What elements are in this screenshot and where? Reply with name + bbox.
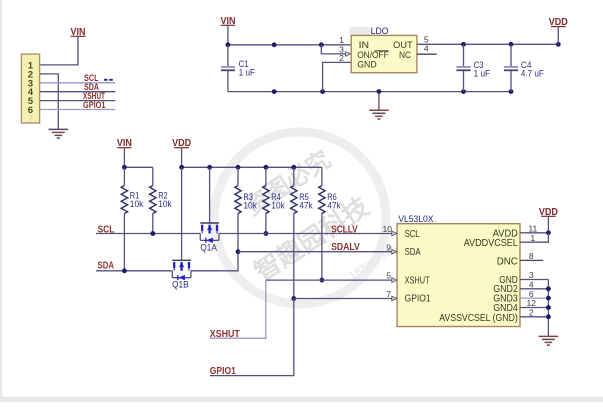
junction at AVDD <box>546 230 551 235</box>
svg-text:4: 4 <box>424 44 429 54</box>
junction AVSSVCSEL <box>546 314 551 319</box>
wire ON/OFF drop to LDO pin 3 <box>321 45 345 54</box>
ground (IC) <box>539 336 559 345</box>
supply VIN (pull-up section) <box>117 138 132 167</box>
wire R1 to SDA row <box>123 214 125 271</box>
svg-text:SDALV: SDALV <box>331 242 360 253</box>
wire AVDDVCSEL pin 1 <box>520 233 548 242</box>
wire AVDD pin 11 <box>520 232 548 234</box>
wire VIN down to input rail <box>227 26 229 45</box>
svg-text:XSHUT: XSHUT <box>405 275 430 286</box>
junction VIN rail at R1 <box>122 165 127 170</box>
svg-text:1 uF: 1 uF <box>474 69 491 80</box>
svg-text:10k: 10k <box>158 199 172 209</box>
wire GND4 pin 12 <box>520 307 548 309</box>
wire SCLLV row <box>219 233 392 235</box>
bottom grey bar <box>0 398 603 402</box>
supply VDD (LDO section) <box>549 17 568 44</box>
svg-text:7: 7 <box>386 289 391 299</box>
capacitor C4 <box>504 44 544 91</box>
capacitor C1 <box>221 45 255 92</box>
svg-text:ON/OFF: ON/OFF <box>357 50 389 60</box>
transistor Q1A <box>200 167 219 253</box>
junction VDD rail at R5 <box>291 165 296 170</box>
junction SDA row at R1 <box>122 268 127 273</box>
ground (connector) <box>49 129 69 138</box>
junction R5 at GPIO1 row <box>291 296 296 301</box>
svg-text:DNC: DNC <box>497 256 518 267</box>
svg-text:2: 2 <box>529 308 534 318</box>
resistor R6 <box>319 167 342 213</box>
net label SCL (connector) <box>84 73 113 83</box>
wire R4 to SCLLV row <box>265 214 267 234</box>
supply VIN (LDO section) <box>221 16 236 27</box>
resistor R4 <box>263 167 286 213</box>
IC U1 VL53L0X <box>397 214 520 327</box>
svg-text:GPIO1: GPIO1 <box>83 100 106 110</box>
svg-text:GND: GND <box>357 60 377 70</box>
wire connector pin 4 (SDA) <box>40 91 115 93</box>
stub DNC pin 8 <box>520 259 543 261</box>
svg-text:47k: 47k <box>327 201 341 211</box>
svg-text:SCLLV: SCLLV <box>331 224 358 235</box>
junction ground rail at C3 <box>461 89 466 94</box>
junction on input rail at C1 <box>226 42 231 47</box>
svg-text:Q1A: Q1A <box>200 242 217 253</box>
svg-text:10: 10 <box>382 224 392 234</box>
wire GND bus vertical <box>547 280 549 336</box>
wire connector pin 5 (XSHUT) <box>40 100 115 102</box>
junction VDD rail at R4 <box>264 165 269 170</box>
wire LDO GND to ground rail <box>323 62 352 91</box>
wire XSHUT label riser <box>210 280 266 338</box>
wire GND3 pin 6 <box>520 297 548 299</box>
wire AVSSVCSEL pin 2 <box>520 316 548 318</box>
pin 10 arrow (SCL) <box>392 231 397 236</box>
resistor R5 <box>291 167 314 213</box>
svg-text:10k: 10k <box>243 201 257 211</box>
svg-text:5: 5 <box>386 271 391 281</box>
junction ground rail at C4 <box>509 89 514 94</box>
svg-text:SCL: SCL <box>405 229 420 240</box>
left grey edge <box>0 0 2 402</box>
pin 9 arrow (SDA) <box>392 249 397 254</box>
junction VDD rail at Q1B gate <box>179 165 184 170</box>
junction on input rail at ON/OFF drop <box>319 42 324 47</box>
junction VDD rail at R3 <box>236 165 241 170</box>
resistor R1 <box>121 167 144 213</box>
wire GND pin 3 <box>520 279 548 281</box>
svg-text:8: 8 <box>529 251 534 261</box>
wire R3 to SDALV row and Q1B drain <box>191 214 238 271</box>
junction VDD rail at Q1A gate <box>207 165 212 170</box>
wire R5 down to GPIO1 row <box>293 214 295 299</box>
wire VIN rail <box>124 166 152 168</box>
wire SDA row <box>96 270 172 272</box>
svg-text:4.7 uF: 4.7 uF <box>521 69 544 80</box>
svg-text:1 uF: 1 uF <box>239 68 256 79</box>
svg-text:XSHUT: XSHUT <box>210 329 241 340</box>
svg-text:1: 1 <box>530 233 535 243</box>
junction GND3 <box>546 296 551 301</box>
svg-text:SDA: SDA <box>98 261 115 272</box>
wire R2 to SCL row <box>152 214 154 234</box>
wire LDO OUT to VDD <box>417 43 558 45</box>
wire R6 to XSHUT row <box>321 214 323 281</box>
supply VIN (connector) <box>71 27 86 38</box>
junction R3 at SDALV row <box>236 249 241 254</box>
svg-text:10k: 10k <box>130 199 144 209</box>
junction ground rail <box>272 89 277 94</box>
svg-text:7: 7 <box>28 114 33 124</box>
wire SCL row <box>96 233 200 235</box>
junction ground rail at LDO GND <box>320 89 325 94</box>
wire XSHUT row <box>266 279 393 281</box>
junction ground rail at ground symbol <box>377 89 382 94</box>
ground rail (LDO section) <box>228 91 511 93</box>
svg-text:VL53L0X: VL53L0X <box>398 214 433 224</box>
svg-text:AVDDVCSEL: AVDDVCSEL <box>464 238 519 249</box>
pin NC stub <box>417 53 437 55</box>
junction SCL row at R2 <box>150 231 155 236</box>
svg-text:IN: IN <box>359 40 370 50</box>
junction R4 at SCLLV row <box>264 231 269 236</box>
svg-text:Q1B: Q1B <box>172 280 189 291</box>
wire VDD rail <box>182 166 322 168</box>
svg-text:GPIO1: GPIO1 <box>405 293 431 304</box>
wire GND2 pin 4 <box>520 288 548 290</box>
watermark <box>214 132 441 304</box>
junction OUT rail at VDD <box>556 42 561 47</box>
connector J1 <box>21 54 39 123</box>
junction on input rail <box>272 42 277 47</box>
pin 7 arrow (GPIO1) <box>392 296 397 301</box>
resistor R2 <box>150 167 173 213</box>
supply VDD (pull-up section) <box>172 138 191 167</box>
junction R6 at XSHUT row <box>320 278 325 283</box>
LDO U2 <box>339 26 429 73</box>
svg-text:10k: 10k <box>271 201 285 211</box>
wire VIN to connector pin 1 <box>40 37 78 65</box>
wire SDALV row <box>238 251 392 253</box>
wire connector pin 6 (GPIO1) <box>40 109 115 111</box>
transistor Q1B <box>172 167 191 290</box>
wire GPIO1 label riser <box>210 299 294 376</box>
wire GPIO1 row <box>294 298 393 300</box>
svg-text:OUT: OUT <box>393 40 413 50</box>
svg-text:2: 2 <box>339 53 344 63</box>
pin arrow LDO pin 3 <box>346 52 351 57</box>
ground (LDO section) <box>369 92 389 119</box>
svg-text:47k: 47k <box>299 201 313 211</box>
junction GND4 <box>546 305 551 310</box>
wire input rail to LDO IN <box>228 44 351 46</box>
resistor R3 <box>235 167 258 213</box>
svg-text:9: 9 <box>386 242 391 252</box>
supply VDD (IC) <box>539 207 558 233</box>
capacitor C3 <box>456 44 490 91</box>
junction GND2 <box>546 286 551 291</box>
wire connector pin 2 to ground <box>40 74 58 129</box>
wire connector pin 3 (SCL) <box>40 82 115 84</box>
svg-text:GPIO1: GPIO1 <box>210 366 236 377</box>
pin 5 arrow (XSHUT) <box>392 278 397 283</box>
svg-text:AVSSVCSEL (GND): AVSSVCSEL (GND) <box>439 313 518 324</box>
junction OUT rail at C3 <box>461 42 466 47</box>
svg-text:SDA: SDA <box>405 247 421 258</box>
svg-text:NC: NC <box>399 50 411 60</box>
junction OUT rail at C4 <box>509 42 514 47</box>
